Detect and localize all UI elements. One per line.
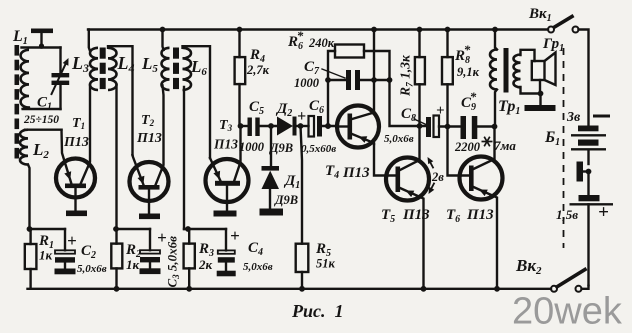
transformer Тр1 secondary [514,50,541,94]
transformer Тр1 primary [490,27,498,127]
svg-text:Д9В: Д9В [269,141,293,155]
transistor T1 [56,86,95,217]
transistor T2 [130,86,169,220]
svg-text:П13: П13 [213,137,238,152]
label + C4 5,0x6в [230,226,273,273]
transistor T3 [206,126,249,217]
svg-text:1000: 1000 [294,76,320,90]
battery Б1 top cell [571,126,606,165]
svg-text:240к: 240к [308,36,335,50]
label C5 1000 [239,99,265,154]
label + C3 5,0x6в (rotated) [157,228,181,288]
variable capacitor C1 [52,48,70,110]
svg-text:5,0х6в: 5,0х6в [243,261,273,273]
svg-text:2200: 2200 [454,140,481,154]
svg-text:2,7к: 2,7к [246,63,270,77]
label C1 [37,95,52,113]
dot T4 base node [325,123,331,129]
current annotation *7ма [482,137,517,153]
label R7 1,3к (rotated) [398,54,416,97]
coil L4 [108,46,133,229]
coil L5 [160,27,170,90]
label 1,5в + [556,202,609,223]
core L5/L6 [173,48,179,90]
svg-text:9,1к: 9,1к [457,65,480,79]
label T3 П13 [213,118,238,152]
resistor R5 [296,126,309,292]
wire rail left corner to L3 [89,30,90,52]
svg-text:5,0х6в: 5,0х6в [384,133,414,145]
svg-text:2в: 2в [431,170,444,184]
wire top rail [88,28,548,30]
label R8* 9,1к [454,42,480,79]
svg-text:+: + [297,108,306,125]
svg-text:51к: 51к [316,257,336,271]
svg-text:+: + [230,226,240,245]
label C9* 2200 [454,89,481,154]
capacitor C9 [461,116,495,139]
battery middle tap [577,162,592,196]
label T5 П13 [381,207,430,225]
wire C7 node to C8 [390,80,427,126]
node emitter RC T2 [113,226,150,232]
resistor R4 [235,27,246,126]
svg-text:+: + [598,202,609,223]
core Тр1 [504,48,509,93]
label Тр1 [498,98,520,117]
svg-text:Рис. 1: Рис. 1 [291,301,344,321]
coil L6 [183,46,211,229]
transistor T6 [448,124,503,292]
transistor T5 [374,126,429,292]
node C5/Д2/Д1 [268,123,274,129]
switch Вк1 [548,17,589,127]
capacitor C7 [325,70,392,90]
core L3/L4 [100,48,106,90]
battery Б1 bottom cell [570,195,614,285]
capacitor C3 [140,229,161,274]
svg-text:2к: 2к [198,257,213,272]
label Д1 Д9В [274,173,300,207]
resistor R6 [325,45,389,129]
svg-text:0,5х60в: 0,5х60в [301,143,336,155]
svg-text:3в: 3в [566,110,581,125]
svg-text:1к: 1к [39,248,53,263]
label T4 П13 [325,163,370,181]
svg-text:П13: П13 [63,135,89,150]
label R6* 240к [287,28,335,52]
label L4 [117,53,135,75]
svg-text:+: + [436,103,445,119]
resistor R2 [111,229,122,292]
label Д2 Д9В [269,101,293,155]
capacitor C2 [55,229,76,274]
label T2 П13 [136,113,162,146]
annotation 2в with arrows [428,157,445,194]
coil L3 [90,48,98,90]
label L6 [190,57,207,78]
ferrite rod (dashed core of L1/L2) [15,45,20,159]
svg-text:П13: П13 [342,165,370,181]
wire bottom rail [28,288,552,290]
label T1 П13 [63,116,89,150]
svg-text:7ма: 7ма [494,138,516,153]
node emitter RC T3 [184,226,226,232]
label L1 [12,28,28,47]
label C7 1000 [294,59,345,90]
capacitor C4 [217,229,236,276]
diode Д2 [277,117,301,136]
coil L2 [20,130,62,229]
coil L1 [21,48,61,110]
label R2 1к [125,242,141,272]
transistor T4 [337,106,379,148]
svg-text:С3 5,0х6в: С3 5,0х6в [165,236,182,288]
svg-text:П13: П13 [136,131,162,146]
loudspeaker Гр1 [525,53,556,112]
label Вк2 [515,256,542,277]
label 3в and minus [566,110,610,125]
label R5 51к [315,241,336,271]
svg-text:1,5в: 1,5в [556,207,578,222]
node T3 collector / C5 [238,123,248,129]
label Вк1 [528,6,552,24]
svg-text:1к: 1к [126,257,140,272]
label L5 [141,54,158,75]
resistor R7 [415,27,425,129]
svg-text:П13: П13 [466,207,494,223]
label + C2 5,0x6в [67,231,107,275]
wire rail to T4 collector [371,27,377,113]
label L3 [71,53,89,75]
svg-text:+: + [67,231,77,250]
capacitor C8 (electrolytic) [426,116,461,138]
node emitter RC T1 [27,226,65,232]
label Б1 [544,129,560,148]
svg-text:25÷150: 25÷150 [23,114,59,126]
label L2 [32,140,49,161]
switch Вк2 [551,270,589,292]
label C8 5,0x6в + [384,103,445,145]
svg-text:20wek: 20wek [512,291,623,333]
label R3 2к [198,241,214,272]
dashed boundary line [563,48,565,248]
value 25÷150 [23,114,59,126]
resistor R3 [184,229,195,292]
svg-text:Д9В: Д9В [274,193,298,207]
svg-text:1000: 1000 [239,140,265,154]
diode Д1 [260,126,284,216]
label T6 П13 [446,207,494,225]
resistor R8 [442,27,453,127]
caption Рис. 1 [291,301,344,321]
label R4 2,7к [246,47,270,77]
capacitor C5 [248,118,278,137]
label + C6 0,5x60в [297,98,336,155]
antenna W1 [31,29,53,49]
label Гр1 [542,36,564,54]
node detector output / C6 [298,123,304,129]
capacitor C6 (electrolytic) [301,116,338,137]
svg-text:5,0х6в: 5,0х6в [77,263,107,275]
label R1 1к [38,233,54,263]
resistor R1 [25,229,37,289]
watermark 20wek [512,291,623,333]
svg-text:П13: П13 [402,207,430,223]
